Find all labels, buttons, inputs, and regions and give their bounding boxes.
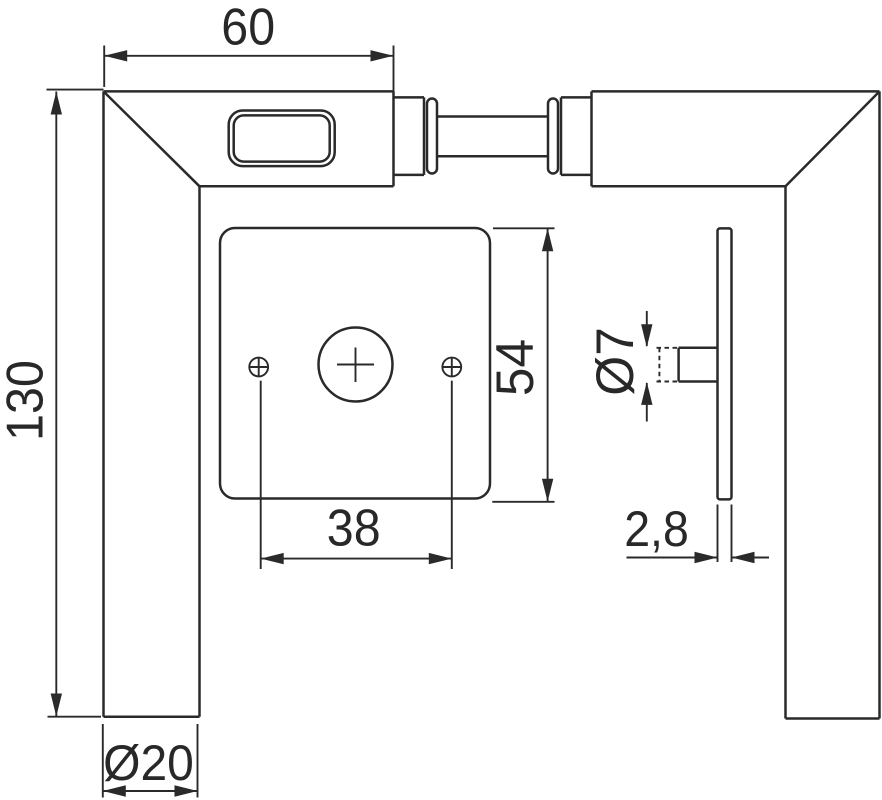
spindle hole cross xyxy=(337,348,374,383)
svg-text:60: 60 xyxy=(221,0,275,56)
spindle xyxy=(437,117,548,157)
right neck xyxy=(561,97,592,174)
dimension 2,8 xyxy=(624,501,769,563)
svg-text:38: 38 xyxy=(327,499,381,557)
grip thumb window inner xyxy=(234,115,330,161)
stub hidden dashed lines xyxy=(657,348,679,382)
svg-text:54: 54 xyxy=(487,339,546,396)
dimension 54 xyxy=(487,228,555,502)
left neck xyxy=(394,97,425,174)
spindle hole circle xyxy=(319,328,393,402)
right collar ring xyxy=(548,99,558,174)
dimension diameter 20 xyxy=(103,724,198,798)
screw hole left xyxy=(249,358,268,377)
left collar ring xyxy=(427,99,437,174)
svg-text:Ø20: Ø20 xyxy=(103,736,194,791)
dimension diameter 7 xyxy=(586,311,652,422)
svg-text:130: 130 xyxy=(0,360,54,441)
dimension 60 xyxy=(104,0,393,91)
spindle stub pin xyxy=(679,348,718,382)
dimension 38 xyxy=(261,381,452,569)
rose plate xyxy=(220,228,490,499)
left lever handle outline xyxy=(104,91,394,716)
rose side profile strip xyxy=(718,228,732,499)
right lever handle outline xyxy=(592,91,880,718)
svg-text:2,8: 2,8 xyxy=(624,501,689,557)
screw hole right xyxy=(442,358,461,377)
grip thumb window outer xyxy=(229,111,335,167)
dimension 130 xyxy=(0,90,104,717)
svg-text:Ø7: Ø7 xyxy=(586,327,645,396)
